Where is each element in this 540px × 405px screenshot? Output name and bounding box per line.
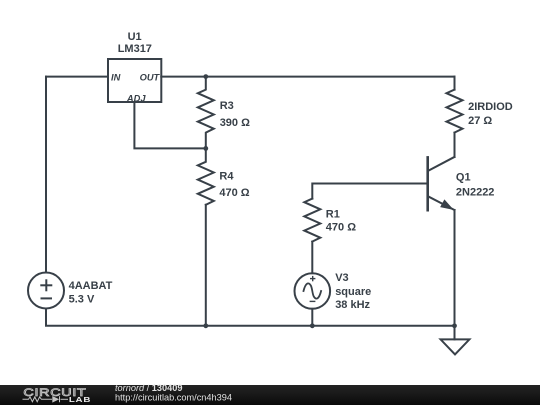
svg-text:square: square: [335, 286, 371, 298]
svg-text:5.3 V: 5.3 V: [69, 293, 95, 305]
wire R1 bottom to V3 top: [311, 242, 313, 274]
node dot bottom rail / R4: [203, 323, 208, 328]
transistor Q1 emitter diagonal: [429, 197, 455, 210]
svg-text:38 kHz: 38 kHz: [335, 299, 370, 311]
regulator U1 LM317 box: [108, 59, 161, 102]
battery minus sign: [41, 297, 53, 299]
svg-text:470 Ω: 470 Ω: [219, 187, 249, 199]
wire collector vertical: [454, 133, 456, 157]
svg-text:R1: R1: [326, 209, 340, 221]
wire emitter vertical to ground: [454, 210, 456, 339]
transistor Q1 collector diagonal: [429, 157, 455, 171]
node dot bottom rail / ground: [452, 323, 457, 328]
wire R1 top corner to base: [312, 184, 427, 199]
svg-text:LM317: LM317: [118, 43, 152, 55]
resistor R4: [198, 148, 214, 204]
resistor R1: [304, 199, 320, 242]
wire battery bottom to bottom rail: [46, 309, 206, 326]
V3 sine wave: [304, 283, 322, 298]
svg-text:http://circuitlab.com/cn4h394: http://circuitlab.com/cn4h394: [115, 392, 232, 402]
node dot bottom rail / V3: [310, 323, 315, 328]
V3 plus sign: [310, 276, 316, 302]
wire R4 bottom lead: [205, 205, 207, 326]
battery 4AABAT circle: [28, 273, 64, 309]
wire OUT top rail: [161, 76, 454, 78]
svg-text:2IRDIOD: 2IRDIOD: [468, 101, 513, 113]
svg-text:U1: U1: [128, 31, 142, 43]
battery plus sign: [40, 279, 52, 298]
logo schematic line: [23, 396, 69, 402]
svg-text:V3: V3: [335, 272, 348, 284]
transistor Q1 emitter arrow: [441, 200, 453, 209]
svg-text:390 Ω: 390 Ω: [220, 117, 250, 129]
node dot ADJ / R3-R4: [203, 146, 208, 151]
node dot top rail / R3: [203, 74, 208, 79]
transistor Q1 base bar: [426, 157, 429, 210]
wire V3 bottom to bottom rail: [311, 309, 313, 326]
svg-text:LAB: LAB: [69, 395, 91, 404]
svg-text:4AABAT: 4AABAT: [69, 280, 113, 292]
logo diode triangle: [52, 396, 59, 403]
svg-text:R4: R4: [219, 170, 234, 182]
svg-text:ADJ: ADJ: [126, 93, 146, 103]
svg-text:R3: R3: [220, 100, 234, 112]
svg-text:27 Ω: 27 Ω: [468, 115, 492, 127]
svg-text:470 Ω: 470 Ω: [326, 222, 356, 234]
svg-text:IN: IN: [111, 72, 121, 82]
ground symbol triangle: [441, 339, 470, 354]
svg-text:OUT: OUT: [140, 72, 161, 82]
V3 minus sign: [310, 300, 316, 302]
voltage source V3 circle: [295, 273, 331, 309]
svg-text:2N2222: 2N2222: [456, 187, 495, 199]
wire left vertical (to battery top): [45, 77, 47, 273]
wire right drop from top rail: [454, 77, 456, 90]
svg-text:Q1: Q1: [456, 172, 471, 184]
resistor R3: [198, 77, 214, 149]
wire bottom rail: [206, 325, 455, 327]
resistor 2IRDIOD: [447, 90, 463, 133]
wire ADJ to R3-R4 junction: [134, 102, 205, 148]
wire IN (left horizontal to U1): [46, 76, 108, 78]
